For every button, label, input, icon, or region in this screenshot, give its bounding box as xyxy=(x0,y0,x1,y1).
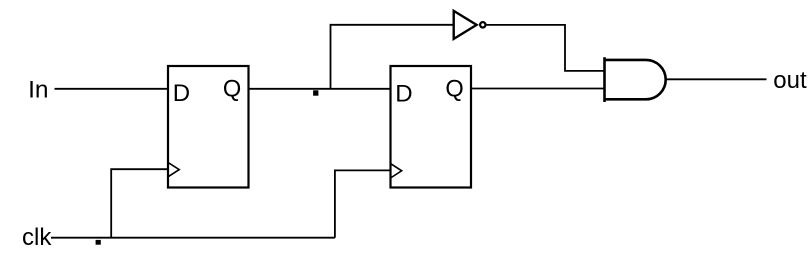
U2 clock edge triangle xyxy=(391,164,402,178)
svg-text:D: D xyxy=(173,80,190,107)
clk wire xyxy=(51,237,335,239)
inverter U3 bubble xyxy=(480,22,485,27)
D flip-flop U2 body xyxy=(391,66,472,188)
wire inverter output to AND top input xyxy=(486,25,604,71)
svg-text:Q: Q xyxy=(445,77,463,103)
U1 clock edge triangle xyxy=(168,162,179,176)
svg-text:Q: Q xyxy=(223,76,241,102)
svg-text:clk: clk xyxy=(22,224,52,251)
svg-text:In: In xyxy=(28,76,48,103)
wire U2 Q to AND bottom input xyxy=(471,88,604,90)
wire AND output to out xyxy=(666,78,767,80)
AND gate U4 left edge xyxy=(603,57,606,102)
junction dot node A xyxy=(313,90,318,95)
svg-text:out: out xyxy=(773,67,807,94)
wire In to D of U1 xyxy=(55,88,169,90)
AND gate U4 body xyxy=(604,60,666,99)
svg-text:D: D xyxy=(395,81,412,108)
wire U1 Q to U2 D xyxy=(249,88,391,90)
clk branch wire to U1 clock xyxy=(111,169,168,238)
junction dot clk node xyxy=(96,240,101,245)
inverter U3 triangle xyxy=(454,11,477,39)
feedback wire node A up to inverter input xyxy=(331,25,454,89)
clk branch wire to U2 clock xyxy=(335,170,391,237)
D flip-flop U1 body xyxy=(168,66,249,188)
